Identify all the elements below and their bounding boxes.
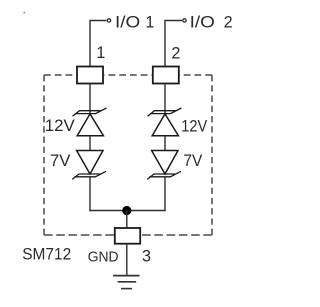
svg-text:I/O: I/O bbox=[190, 14, 215, 32]
zener diode D2 7V triangle (left) bbox=[77, 151, 103, 175]
pin 2 box bbox=[153, 67, 179, 84]
wire: D1 to D2 (left) bbox=[89, 136, 91, 151]
svg-text:7V: 7V bbox=[50, 151, 71, 170]
junction node bbox=[122, 206, 131, 215]
wire: D4 to common node (right drop) bbox=[164, 177, 166, 211]
svg-text:2: 2 bbox=[171, 44, 180, 62]
svg-text:7V: 7V bbox=[183, 151, 203, 170]
wire: pin 1 to D1 bbox=[89, 84, 91, 114]
wire: common bus bbox=[89, 210, 165, 212]
svg-text:12V: 12V bbox=[181, 117, 208, 136]
zener diode D3 12V triangle (right) bbox=[152, 114, 178, 136]
svg-text:I/O: I/O bbox=[115, 14, 140, 32]
svg-text:3: 3 bbox=[142, 248, 151, 266]
zener diode D4 7V cathode bar (right) bbox=[147, 171, 181, 179]
wire: I/O 1 stub bbox=[90, 21, 106, 67]
package outline SM712 (dashed box) bbox=[44, 75, 212, 235]
wire: D3 to D4 (right) bbox=[164, 136, 166, 151]
zener diode D1 12V triangle (left) bbox=[77, 114, 103, 136]
svg-text:GND: GND bbox=[88, 249, 119, 266]
pin 1 box bbox=[77, 67, 103, 84]
stray mark bbox=[24, 12, 26, 14]
zener diode D2 7V cathode bar (left) bbox=[72, 171, 106, 179]
wire: I/O 2 stub bbox=[165, 21, 182, 67]
wire: D2 to common node (left drop) bbox=[89, 177, 91, 211]
zener diode D1 12V cathode bar (left) bbox=[73, 108, 107, 116]
wire: node to GND pin bbox=[126, 211, 128, 229]
label I/O 2 bbox=[190, 14, 233, 32]
terminal I/O 1 bbox=[107, 19, 110, 22]
svg-text:1: 1 bbox=[96, 44, 105, 62]
zener diode D4 7V triangle (right) bbox=[152, 151, 178, 175]
pin 3 box (GND) bbox=[115, 228, 140, 244]
ground bbox=[113, 276, 140, 289]
svg-text:2: 2 bbox=[224, 14, 233, 32]
wire: GND pin to ground symbol bbox=[126, 244, 128, 276]
terminal I/O 2 bbox=[183, 19, 186, 22]
wire: pin 2 to D3 bbox=[164, 84, 166, 114]
label I/O 1 bbox=[115, 14, 154, 32]
svg-text:12V: 12V bbox=[45, 116, 76, 135]
svg-text:SM712: SM712 bbox=[22, 244, 71, 263]
zener diode D3 12V cathode bar (right) bbox=[148, 108, 182, 116]
svg-text:1: 1 bbox=[145, 14, 154, 32]
